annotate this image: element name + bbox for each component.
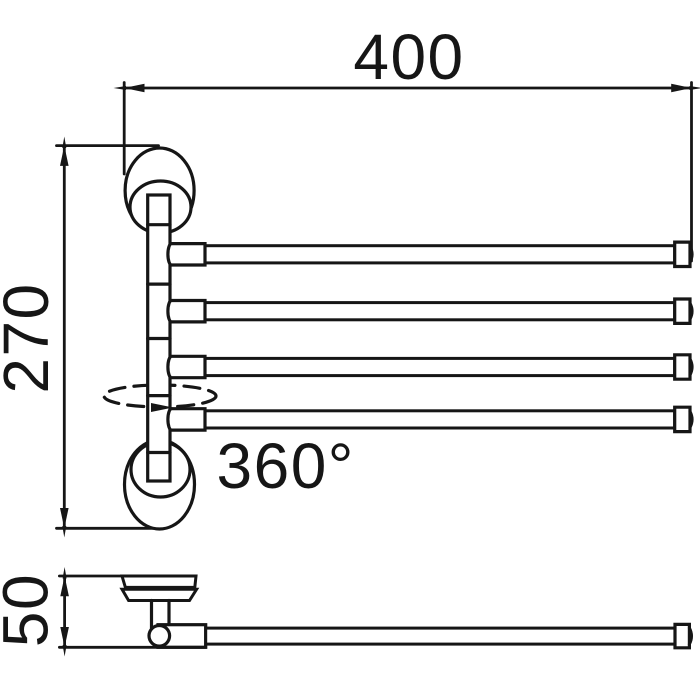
arm 4 bar — [205, 411, 675, 428]
svg-text:50: 50 — [0, 573, 62, 647]
post divider 1 — [148, 223, 170, 226]
arm 2 bar — [205, 303, 675, 320]
dim 50 arrow bottom — [60, 627, 69, 657]
dim 270 extension line top — [57, 144, 159, 147]
dim 400 arrow right — [671, 84, 700, 93]
dim 400 extension line right — [690, 83, 693, 262]
arm 3 hub — [168, 356, 205, 377]
svg-text:270: 270 — [0, 282, 62, 393]
arm 4 end cap — [675, 407, 690, 431]
dim 400 dimension line — [124, 87, 691, 90]
dim 50 extension bottom — [59, 646, 205, 649]
top flange inner dome — [130, 181, 191, 233]
rotation arrow — [151, 403, 173, 412]
arm 4 hub — [168, 409, 205, 430]
bottom view end cap — [675, 624, 689, 647]
arm 1 hub — [168, 244, 205, 265]
bottom view wall plate lid — [122, 576, 196, 587]
svg-text:400: 400 — [353, 21, 464, 93]
bottom view stem — [150, 601, 153, 629]
dim 400 extension line left — [123, 83, 126, 175]
dim 50 arrow top — [60, 567, 69, 596]
arm 3 bar — [205, 358, 675, 375]
bottom view bar — [206, 628, 676, 644]
post divider 5 — [148, 451, 170, 454]
dim 50 extension top — [59, 575, 122, 578]
post divider 4 — [148, 394, 170, 397]
dim 270 dimension line — [63, 146, 66, 529]
dim 50 dimension line — [63, 576, 66, 647]
post divider 3 — [148, 337, 170, 340]
post — [148, 195, 170, 481]
arm 1 bar — [205, 246, 675, 263]
bottom flange inner dome — [131, 442, 190, 497]
dim 400 arrow left — [114, 84, 145, 93]
bottom view hub — [158, 625, 206, 648]
arm 2 end cap — [675, 299, 690, 323]
bottom view ball joint — [149, 626, 170, 647]
svg-text:360°: 360° — [217, 430, 355, 502]
dim 270 extension line bottom — [57, 527, 162, 530]
dim 270 arrow bottom — [60, 508, 69, 538]
bottom flange outer ellipse — [125, 440, 195, 529]
bottom view dish rim — [122, 589, 197, 600]
dim 270 arrow top — [60, 137, 69, 166]
arm 1 end cap — [675, 242, 690, 266]
rotation dashed ellipse — [104, 385, 216, 407]
arm 2 hub — [168, 301, 205, 322]
post divider 2 — [148, 283, 170, 286]
arm 3 end cap — [675, 355, 690, 379]
top flange outer ellipse — [125, 148, 194, 233]
